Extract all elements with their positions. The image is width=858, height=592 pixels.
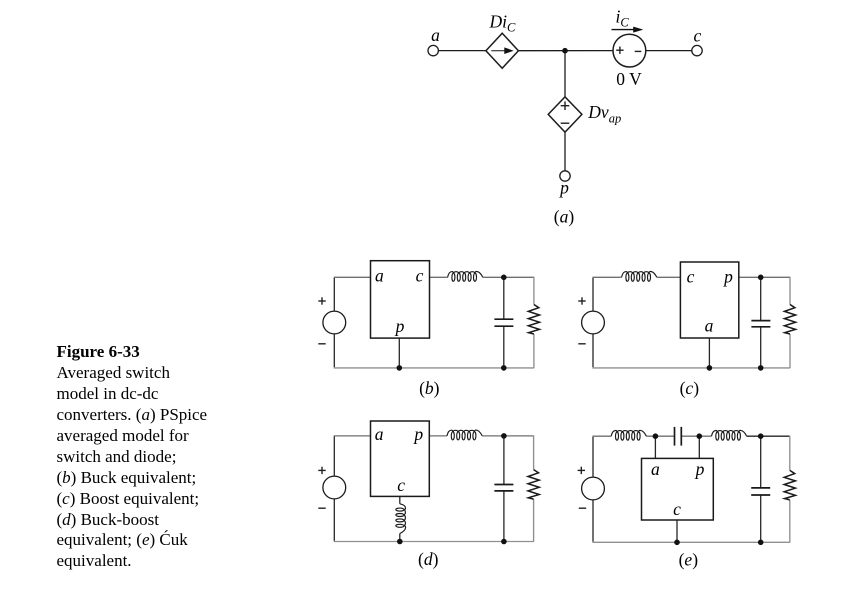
svg-text:0 V: 0 V [616, 69, 642, 89]
svg-text:p: p [694, 459, 705, 479]
svg-text:a: a [705, 316, 714, 336]
svg-text:(d): (d) [418, 549, 439, 569]
svg-text:c: c [694, 26, 702, 46]
svg-text:DiC: DiC [489, 12, 517, 35]
svg-text:p: p [722, 267, 733, 287]
svg-text:p: p [394, 316, 405, 336]
svg-text:p: p [558, 178, 569, 198]
svg-text:a: a [375, 266, 384, 286]
svg-text:iC: iC [616, 6, 630, 29]
svg-text:a: a [431, 25, 440, 45]
svg-text:c: c [397, 475, 405, 495]
svg-text:(a): (a) [554, 207, 575, 227]
svg-text:c: c [687, 267, 695, 287]
svg-text:c: c [416, 266, 424, 286]
svg-text:a: a [375, 424, 384, 444]
svg-text:p: p [412, 424, 423, 444]
svg-text:(c): (c) [680, 378, 700, 398]
svg-text:(e): (e) [679, 550, 699, 570]
svg-text:Dvap: Dvap [587, 102, 621, 126]
svg-text:c: c [673, 499, 681, 519]
svg-text:(b): (b) [419, 378, 440, 398]
svg-text:a: a [651, 459, 660, 479]
